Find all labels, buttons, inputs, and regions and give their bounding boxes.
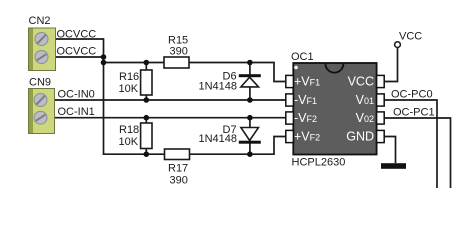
svg-text:OC-IN0: OC-IN0 [58, 89, 95, 101]
svg-text:OC-PC0: OC-PC0 [391, 89, 433, 101]
svg-text:R18: R18 [119, 124, 139, 136]
svg-text:+VF2: +VF2 [294, 129, 320, 143]
svg-text:OCVCC: OCVCC [57, 29, 97, 41]
svg-text:R17: R17 [168, 163, 188, 175]
svg-text:OCVCC: OCVCC [57, 46, 97, 58]
svg-text:HCPL2630: HCPL2630 [292, 157, 346, 169]
svg-text:VCC: VCC [348, 75, 374, 89]
svg-text:VCC: VCC [399, 31, 422, 43]
svg-text:-VF1: -VF1 [294, 93, 317, 107]
svg-text:10K: 10K [119, 83, 139, 95]
svg-text:10K: 10K [119, 136, 139, 148]
svg-text:1N4148: 1N4148 [199, 81, 238, 93]
svg-text:390: 390 [170, 175, 188, 187]
svg-text:390: 390 [170, 45, 188, 57]
svg-text:1N4148: 1N4148 [199, 133, 238, 145]
svg-text:CN9: CN9 [29, 77, 51, 89]
svg-text:OC-PC1: OC-PC1 [393, 106, 435, 118]
svg-text:R16: R16 [119, 71, 139, 83]
svg-text:GND: GND [346, 129, 374, 143]
svg-text:V02: V02 [356, 111, 374, 125]
svg-text:V01: V01 [356, 93, 374, 107]
svg-text:-VF2: -VF2 [294, 111, 317, 125]
svg-text:OC1: OC1 [291, 51, 314, 63]
svg-text:CN2: CN2 [29, 15, 51, 27]
svg-text:OC-IN1: OC-IN1 [58, 106, 95, 118]
svg-text:+VF1: +VF1 [294, 75, 320, 89]
